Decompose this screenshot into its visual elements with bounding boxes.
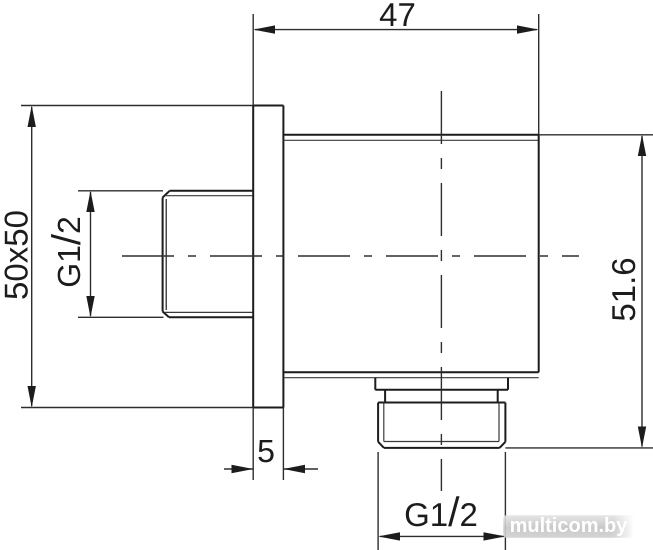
- dimension 51.6: dimension line with arrows: [638, 135, 646, 448]
- bottom connector hex step: [385, 390, 498, 403]
- dimension 47: left extension line: [252, 14, 254, 121]
- dimension 47: value label: [379, 0, 416, 33]
- svg-text:5: 5: [257, 433, 275, 469]
- svg-text:47: 47: [379, 0, 416, 33]
- dimension G1/2 left: value label (rotated): [45, 216, 89, 288]
- dimension 5: right extension line below plate: [282, 408, 284, 481]
- dimension G1/2 bottom: value label: [404, 489, 478, 535]
- dimension 5: left arrow: [224, 465, 253, 473]
- left threaded connector G1/2: [163, 191, 254, 317]
- bottom threaded connector G1/2: [378, 403, 505, 448]
- watermark multicom.by: [503, 515, 634, 538]
- svg-text:51.6: 51.6: [605, 257, 642, 321]
- dimension G1/2 left: dimension line with arrows: [86, 191, 94, 317]
- dimension 47: dimension line with arrows: [253, 25, 539, 33]
- dimension 50x50: dimension line with arrows: [28, 106, 36, 408]
- dimension 51.6: top extension line: [539, 134, 653, 136]
- bottom connector flange step: [375, 378, 508, 390]
- dimension 5: left extension line below plate: [252, 408, 254, 481]
- dimension 50x50: value label (rotated): [0, 210, 34, 300]
- dimension G1/2 left: bottom extension line: [78, 316, 164, 318]
- dimension 5: right arrow: [283, 465, 318, 473]
- dimension G1/2 bottom: right extension line: [504, 452, 506, 550]
- dimension 50x50: top extension line: [21, 105, 254, 107]
- dimension 51.6: value label (rotated): [605, 257, 642, 321]
- svg-text:G1/2: G1/2: [404, 489, 478, 535]
- dimension G1/2 left: top extension line: [78, 190, 163, 192]
- svg-text:G1/2: G1/2: [45, 216, 89, 288]
- horizontal centerline: [122, 255, 579, 257]
- dimension 47: right extension line: [538, 14, 540, 135]
- vertical centerline: [440, 91, 442, 491]
- dimension G1/2 bottom: dimension line with arrows: [378, 532, 505, 540]
- wall plate 50x50: [253, 106, 283, 408]
- svg-text:50x50: 50x50: [0, 210, 34, 300]
- dimension 51.6: bottom extension line: [505, 447, 653, 449]
- dimension G1/2 bottom: left extension line: [377, 452, 379, 550]
- main body block: [283, 135, 538, 378]
- dimension 5: value label: [257, 433, 275, 469]
- dimension 50x50: bottom extension line: [21, 407, 254, 409]
